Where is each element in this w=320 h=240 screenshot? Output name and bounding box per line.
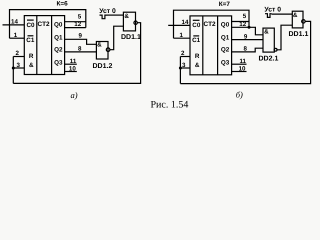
wire pin 12 stub right xyxy=(232,26,249,28)
svg-text:1: 1 xyxy=(180,32,184,39)
wire pin 12 stub xyxy=(65,27,86,29)
svg-text:11: 11 xyxy=(70,58,77,65)
wire pin 10 stub right xyxy=(232,71,247,73)
wire Ust 0 to DD1.1 in1 right xyxy=(272,13,293,15)
wire input to pin 14 xyxy=(3,24,25,26)
wire top rail Q0 to C1 xyxy=(10,10,86,39)
wire pin 2 right xyxy=(180,56,190,58)
divider left field right xyxy=(202,16,204,75)
svg-text:&: & xyxy=(195,62,200,69)
svg-text:R: R xyxy=(29,53,34,60)
divider right field xyxy=(51,16,53,75)
svg-text:12: 12 xyxy=(239,21,246,28)
svg-text:Q3: Q3 xyxy=(221,60,230,67)
wire pin 11 stub right xyxy=(232,63,247,65)
svg-text:&: & xyxy=(29,62,34,69)
svg-text:DD1.2: DD1.2 xyxy=(93,63,113,70)
svg-text:C1: C1 xyxy=(26,37,35,44)
svg-text:8: 8 xyxy=(244,46,248,53)
svg-text:14: 14 xyxy=(11,19,18,26)
inverter bubble DD1.1 output xyxy=(134,21,137,24)
divider right field right xyxy=(217,16,219,75)
inverter bubble DD2.1 output xyxy=(274,48,277,51)
svg-text:1: 1 xyxy=(14,32,18,39)
svg-text:DD1.1: DD1.1 xyxy=(121,34,141,41)
svg-text:2: 2 xyxy=(181,50,185,57)
inverter bubble DD1.2 output xyxy=(106,48,110,52)
svg-text:12: 12 xyxy=(74,21,81,28)
svg-text:&: & xyxy=(124,13,129,20)
svg-text:14: 14 xyxy=(182,19,189,26)
svg-text:C0: C0 xyxy=(192,22,201,29)
svg-text:3: 3 xyxy=(16,62,20,69)
wire pin 5 stub xyxy=(65,21,86,23)
svg-text:б): б) xyxy=(236,90,243,100)
wire pin 5 stub right xyxy=(232,21,249,23)
wire pin 8 right (Q2 to DD2.1) xyxy=(232,48,263,52)
NAND gate DD1.1 (left) xyxy=(123,12,135,31)
NAND gate DD1.2 xyxy=(96,42,108,60)
svg-text:Q0: Q0 xyxy=(54,21,63,28)
junction dot pins 2-3 xyxy=(12,67,15,70)
negative pulse symbol (left) xyxy=(100,15,108,19)
svg-text:C0: C0 xyxy=(26,22,35,29)
wire pin 2 xyxy=(13,56,24,58)
svg-text:Уст 0: Уст 0 xyxy=(99,8,116,15)
svg-text:Q3: Q3 xyxy=(54,60,63,67)
wire pin 11 stub xyxy=(65,63,77,65)
counter DD (CT2) box xyxy=(24,16,64,75)
wire input to pin 14 right xyxy=(168,24,190,26)
wire pin 10 stub xyxy=(65,71,77,73)
svg-text:К=6: К=6 xyxy=(57,1,69,8)
svg-text:C1: C1 xyxy=(192,37,201,44)
wire Q0 branch to DD2.1 in1 xyxy=(249,27,263,35)
wire R tie vertical right xyxy=(179,57,181,84)
wire Ust 0 to DD1.1 in1 xyxy=(108,14,124,16)
wire DD2.1 out to DD1.1 in2 xyxy=(277,25,292,50)
svg-text:DD1.1: DD1.1 xyxy=(289,31,309,38)
svg-text:CT2: CT2 xyxy=(203,21,216,28)
wire pin 9 right (Q1 to DD2.1) xyxy=(232,39,263,41)
counter DD (CT2) box right xyxy=(190,16,232,75)
svg-text:3: 3 xyxy=(182,62,186,69)
svg-text:Q0: Q0 xyxy=(221,21,230,28)
wire pin 8 (Q2 to DD1.2) xyxy=(65,51,97,53)
svg-text:&: & xyxy=(293,12,298,19)
svg-text:К=7: К=7 xyxy=(219,1,231,8)
wire DD1.2 out to DD1.1 in2 xyxy=(110,26,124,50)
wire DD1.1 out to R inputs (bottom rail) xyxy=(13,23,140,84)
svg-text:10: 10 xyxy=(69,65,76,72)
svg-text:11: 11 xyxy=(239,58,246,65)
wire R tie vertical xyxy=(12,57,14,84)
svg-text:5: 5 xyxy=(78,13,82,20)
svg-text:DD2.1: DD2.1 xyxy=(259,56,279,63)
svg-text:R: R xyxy=(195,53,200,60)
svg-text:Уст 0: Уст 0 xyxy=(264,7,281,14)
svg-text:Рис. 1.54: Рис. 1.54 xyxy=(151,100,189,111)
svg-text:&: & xyxy=(97,42,102,49)
svg-text:8: 8 xyxy=(78,45,82,52)
svg-text:Q1: Q1 xyxy=(54,35,63,42)
svg-text:&: & xyxy=(264,29,269,36)
svg-text:2: 2 xyxy=(15,50,19,57)
NAND gate DD2.1 xyxy=(263,28,274,52)
svg-text:а): а) xyxy=(70,90,77,100)
divider left field xyxy=(36,16,38,75)
wire pin 3 xyxy=(13,67,24,69)
svg-text:Q2: Q2 xyxy=(221,47,230,54)
svg-text:9: 9 xyxy=(79,32,83,39)
wire DD1.1 right out to R inputs (bottom rail right) xyxy=(180,21,310,83)
svg-text:Q1: Q1 xyxy=(221,35,230,42)
svg-text:9: 9 xyxy=(244,33,248,40)
svg-text:5: 5 xyxy=(243,13,247,20)
negative pulse symbol (right) xyxy=(265,14,272,18)
svg-text:10: 10 xyxy=(239,65,246,72)
inverter bubble DD1.1 right output xyxy=(302,20,306,24)
junction dot pins 2-3 right xyxy=(179,67,182,70)
NAND gate DD1.1 (right) xyxy=(292,11,303,28)
wire pin 1 xyxy=(10,37,25,39)
wire pin 9 (Q1 to DD1.2) xyxy=(65,39,97,44)
wire pin 1 right xyxy=(174,37,191,39)
svg-text:CT2: CT2 xyxy=(37,21,50,28)
wire pin 3 right xyxy=(180,67,190,69)
wire top rail Q0 to C1 right xyxy=(174,10,250,38)
junction dot Q0 branch xyxy=(248,26,251,29)
svg-text:Q2: Q2 xyxy=(54,47,63,54)
